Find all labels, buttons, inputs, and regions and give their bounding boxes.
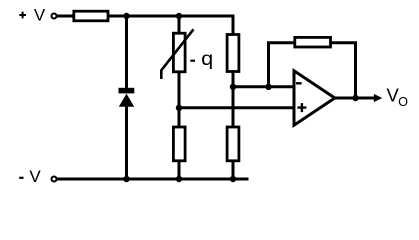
thermistor RT body (173, 33, 185, 72)
node Vo label (387, 85, 409, 110)
diode D1 triangle (119, 94, 134, 107)
resistor R1 (top horizontal) (74, 11, 108, 21)
node junction plus tap (176, 105, 182, 111)
terminal -V (52, 177, 57, 182)
resistor R3 (upper right) (227, 35, 239, 72)
wire minus input (233, 85, 295, 88)
node junction bottom-diode (123, 176, 129, 182)
resistor R5 (lower right) (227, 127, 239, 161)
thermistor RT diagonal stroke (161, 29, 193, 79)
node junction minus tap (230, 84, 236, 90)
wire output (334, 97, 375, 100)
wire right column middle (232, 71, 235, 128)
svg-text:q: q (201, 49, 213, 70)
svg-text:O: O (398, 95, 408, 109)
resistor R4 (lower left) (173, 127, 185, 161)
node -V label (29, 167, 41, 186)
terminal +V (52, 14, 57, 19)
output arrow (374, 94, 383, 102)
op-amp U1 (294, 71, 335, 125)
svg-text:V: V (34, 5, 46, 24)
node junction feedback tap (265, 84, 271, 90)
wire feedback right (330, 43, 356, 98)
wire terminal to R1 (57, 15, 74, 18)
wire bottom rail (57, 178, 249, 181)
svg-text:V: V (29, 167, 41, 186)
wire thermistor column middle (178, 71, 181, 128)
diode D1 cathode bar (119, 88, 135, 94)
wire thermistor column top (178, 16, 181, 34)
node junction bottom-thermistor (176, 176, 182, 182)
resistor R2 (feedback) (295, 37, 331, 47)
wire diode column upper (125, 16, 128, 89)
op-amp minus pin mark (296, 82, 302, 84)
node junction bottom-right (230, 176, 236, 182)
wire top rail (108, 16, 233, 34)
op-amp plus pin mark (297, 103, 306, 112)
wire right column bottom (232, 161, 235, 180)
node junction top-diode (123, 13, 129, 19)
node junction output-feedback (352, 95, 358, 101)
wire diode column lower (125, 105, 128, 179)
node +V label (34, 5, 46, 24)
wire plus input (179, 106, 295, 109)
wire feedback left/top (269, 43, 296, 87)
thermistor label -q (201, 49, 213, 70)
node junction top-thermistor (176, 13, 182, 19)
wire thermistor column bottom (178, 161, 181, 180)
